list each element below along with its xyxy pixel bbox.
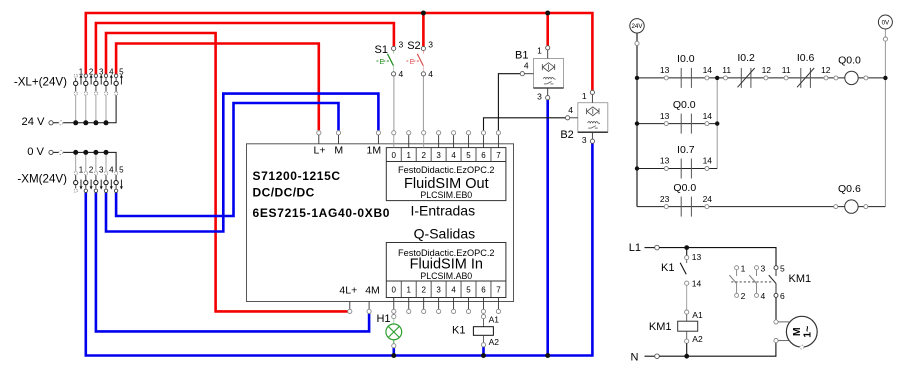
svg-text:3: 3 [99,165,104,174]
ladder rung1 aux pin circles [724,76,829,80]
sensor B1 (proximity switch) [515,46,563,102]
wire blue K1 A2 to bottom rail [482,347,485,356]
svg-text:Q0.0: Q0.0 [838,55,861,67]
junction dot N/KM1.A2 [684,354,689,359]
wire red XL.2 to top bus (S2.3, B1.1, B2.1) [86,13,593,90]
svg-text:0: 0 [392,285,397,294]
svg-text:3: 3 [761,264,766,274]
svg-text:14: 14 [703,156,713,166]
svg-text:4: 4 [524,61,529,71]
svg-text:4L+: 4L+ [339,285,357,297]
switch S2 (NO pushbutton, red) [406,40,433,80]
svg-text:4: 4 [109,67,114,76]
svg-text:4: 4 [761,291,766,301]
svg-text:4: 4 [568,105,573,115]
junction dot bottom rail / B1.3 [545,353,550,358]
svg-text:-XM(24V): -XM(24V) [17,172,67,185]
svg-text:24 V: 24 V [21,116,45,128]
svg-text:2: 2 [89,67,94,76]
contactor KM1 main contacts poles 1-2, 3-4, 5-6 [729,264,811,301]
wire L1 junction down to K1 contact [686,248,688,256]
terminal -XL+(24V).2 [84,67,94,95]
svg-text:H1: H1 [376,313,390,325]
wire black B1 pin 4 to PLC input 7 [498,74,520,131]
svg-text:13: 13 [660,156,670,166]
wire L1 to KM1 pole 5 [659,248,776,266]
wire red branch to B1 pin 1 [546,13,549,46]
PLC pin 1M [367,131,382,157]
svg-text:I0.6: I0.6 [797,52,815,64]
svg-text:S2: S2 [407,40,420,52]
relay coil K1 [452,314,499,347]
junction dot bottom rail / K1.A2 [481,353,486,358]
node N [631,351,660,363]
junction dots XM terminals on 0V rail [73,150,78,155]
svg-text:I-Entradas: I-Entradas [411,203,476,219]
motor M1 (1~) [774,316,817,349]
svg-text:2: 2 [741,291,746,301]
svg-text:2: 2 [89,165,94,174]
svg-text:1: 1 [406,285,411,294]
wire blue XM.3 to PLC 4M [96,193,369,332]
junction dot red bus / B1 branch [545,11,550,16]
terminal -XM(24V).4 [104,165,114,192]
wire red XL.3 to S1 pin 3 [96,23,394,74]
svg-text:Q-Salidas: Q-Salidas [414,226,475,242]
svg-text:24V: 24V [631,23,643,30]
svg-text:1: 1 [406,151,411,160]
svg-text:L+: L+ [314,145,326,157]
svg-text:1: 1 [741,264,746,274]
svg-text:1M: 1M [367,145,382,157]
svg-text:7: 7 [496,151,501,160]
wire red branch to S2 pin 3 [422,13,425,46]
wire red XL.5 to PLC L+ [116,44,319,131]
svg-text:A1: A1 [489,314,500,324]
node L1 [629,242,660,254]
switch S1 (NO pushbutton, green) [375,40,404,80]
wire 0V supply rail [53,152,116,180]
wire blue XM.4 to PLC 1M [106,94,378,232]
svg-text:S1: S1 [375,44,388,56]
sensor B2 (proximity switch) [560,90,607,145]
junction dot rung2/column [715,121,719,125]
svg-text:0 V: 0 V [27,146,44,158]
wire blue XM.2 to 0V bottom rail up to B2 pin 3 [86,143,593,355]
terminal -XL+(24V).1 [74,67,84,95]
svg-text:B2: B2 [560,129,573,141]
svg-text:24: 24 [703,194,713,204]
wire 24V supply rail [53,86,116,123]
svg-text:-XL+(24V): -XL+(24V) [14,76,67,89]
wire red XL.4 to PLC 4L+ [106,33,348,311]
svg-text:A2: A2 [692,334,703,344]
ladder 24V source node [630,19,644,46]
svg-text:Q0.6: Q0.6 [838,183,861,195]
svg-text:4: 4 [451,285,456,294]
wire N rail to motor [659,343,776,356]
svg-text:0: 0 [392,151,397,160]
PLC pin 4M [365,285,380,314]
wire KM1 pole 6 to motor [775,298,777,320]
wire stubs XL terminals to 24V rail [75,86,77,123]
svg-text:I0.0: I0.0 [677,53,695,65]
svg-text:PLCSIM.AB0: PLCSIM.AB0 [420,271,472,281]
terminal -XM(24V).1 [74,165,84,192]
svg-text:4M: 4M [365,285,380,297]
svg-text:E: E [380,59,385,66]
ladder column wire rung1-rung3 at x717 [716,78,718,169]
node 0 V label [27,146,63,158]
wire KM1.A2 to N rail [686,343,688,356]
junction dot red bus / S2 branch [421,11,426,16]
svg-text:1~: 1~ [801,326,813,338]
svg-text:13: 13 [660,65,670,75]
wire blue XM.5 to PLC M [116,103,338,216]
svg-text:5: 5 [466,285,471,294]
svg-text:4: 4 [428,69,433,79]
svg-text:KM1: KM1 [649,321,672,333]
svg-text:DC/DC/DC: DC/DC/DC [253,185,315,199]
svg-text:7: 7 [496,285,501,294]
svg-text:4: 4 [109,165,114,174]
svg-text:K1: K1 [661,262,674,274]
svg-text:1: 1 [79,67,84,76]
svg-text:1: 1 [79,165,84,174]
svg-text:2: 2 [421,151,426,160]
PLC pin L+ [314,131,326,157]
svg-text:1: 1 [582,91,587,101]
junction dot bottom rail / H1 [391,353,396,358]
terminal -XL+(24V).4 [104,67,114,95]
wire stubs 0V rail to XM terminals [75,152,77,180]
svg-text:5: 5 [119,67,124,76]
svg-text:Q0.0: Q0.0 [673,182,696,194]
svg-text:K1: K1 [452,324,465,336]
contact K1 (NO) pins 13-14 [661,252,701,289]
svg-text:3: 3 [428,40,433,50]
svg-text:6: 6 [481,285,486,294]
ladder rung 4 wire [637,206,845,208]
PLC input terminal row I0.0-I0.7 (FluidSIM Out) [386,148,506,201]
svg-text:4: 4 [399,69,404,79]
svg-text:A1: A1 [692,310,703,320]
svg-text:Q0.0: Q0.0 [673,99,696,111]
ladder 0V source node [878,15,892,41]
ladder right rail [884,29,886,206]
terminal -XM(24V).2 [84,165,94,192]
junction dot rung3/left rail [635,166,639,170]
PLC input pins 0-7 [392,131,501,148]
junction dot L1/K1 branch [684,245,689,250]
junction dot rung1/left rail [635,76,639,80]
contact Q0.0 (NO) pins 23-24 rung4 [660,182,712,217]
contact I0.7 (NO) pins 13-14 [660,144,712,179]
svg-text:M: M [334,145,343,157]
indicator lamp H1 (green) [376,313,401,348]
terminal -XM(24V).3 [94,165,104,192]
svg-text:2: 2 [421,285,426,294]
svg-text:14: 14 [703,111,713,121]
svg-text:6ES7215-1AG40-0XB0: 6ES7215-1AG40-0XB0 [253,206,391,220]
node 24 V label [21,116,63,128]
contact Q0.0 (NO) pins 13-14 rung2 [660,99,712,134]
svg-text:4: 4 [451,151,456,160]
wire gray S1 pin 4 to PLC input 0 [393,76,395,130]
wire blue H1 to bottom rail [392,348,395,356]
junction dots XL terminals on 24V rail [73,120,78,125]
contactor coil KM1 [649,310,703,344]
junction dot rung2/left rail [635,121,639,125]
svg-text:A2: A2 [489,337,500,347]
svg-text:FestoDidactic.EzOPC.2: FestoDidactic.EzOPC.2 [398,165,495,175]
svg-text:3: 3 [582,135,587,145]
svg-text:3: 3 [399,40,404,50]
contact I0.6 (NC) pins 11-12 [782,52,831,88]
svg-text:5: 5 [780,264,785,274]
svg-text:N: N [631,351,639,363]
ladder rung 2 wire [637,123,717,125]
svg-text:5: 5 [466,151,471,160]
svg-text:PLCSIM.EB0: PLCSIM.EB0 [420,190,472,200]
svg-text:L1: L1 [629,242,641,254]
svg-text:14: 14 [703,65,713,75]
wire K1.14 to KM1.A1 [686,285,688,310]
svg-text:23: 23 [660,194,670,204]
svg-text:13: 13 [692,252,702,262]
svg-text:3: 3 [99,67,104,76]
svg-text:3: 3 [436,151,441,160]
PLC pin M [334,131,343,157]
svg-text:I0.2: I0.2 [737,52,755,64]
terminal -XL+(24V).5 [114,67,124,95]
ladder rung 3 wire [637,168,717,170]
wire black B2 pin 4 to PLC input 6 [484,118,566,131]
svg-text:12: 12 [821,65,831,75]
contact I0.2 (NC) pins 11-12 [722,52,771,88]
ladder rung 1 wire [637,77,845,79]
contact I0.0 (NO) pins 13-14 [660,53,712,88]
svg-text:14: 14 [692,279,702,289]
svg-text:6: 6 [481,151,486,160]
svg-text:11: 11 [722,65,731,75]
svg-text:11: 11 [782,65,791,75]
wire gray S2 pin 4 to PLC input 2 [422,76,424,130]
svg-text:E: E [410,59,415,66]
svg-text:B1: B1 [515,49,528,61]
svg-text:3: 3 [436,285,441,294]
svg-text:KM1: KM1 [789,273,812,285]
svg-text:S71200-1215C: S71200-1215C [253,169,341,183]
svg-text:6: 6 [780,291,785,301]
svg-text:5: 5 [119,165,124,174]
terminal -XM(24V).5 [114,165,124,192]
wire blue B1 pin 3 to bottom rail [546,100,549,356]
junction dot rung1/column [715,76,719,80]
svg-text:1: 1 [537,46,542,56]
svg-text:3: 3 [537,91,542,101]
svg-text:I0.7: I0.7 [677,144,695,156]
junction dot rung1/right rail [883,76,887,80]
ladder left rail [636,33,638,207]
coil Q0.6 [834,183,868,213]
PLC output terminal row Q0.0-Q0.7 (FluidSIM In) [386,243,506,298]
PLC S7-1200 block U1 [247,144,514,302]
PLC pin 4L+ [339,285,357,314]
terminal -XL+(24V).3 [94,67,104,95]
coil Q0.0 [834,55,868,85]
svg-text:13: 13 [660,111,670,121]
svg-text:0V: 0V [882,19,890,26]
svg-text:12: 12 [762,65,772,75]
PLC output pins 0-7 [392,298,501,314]
